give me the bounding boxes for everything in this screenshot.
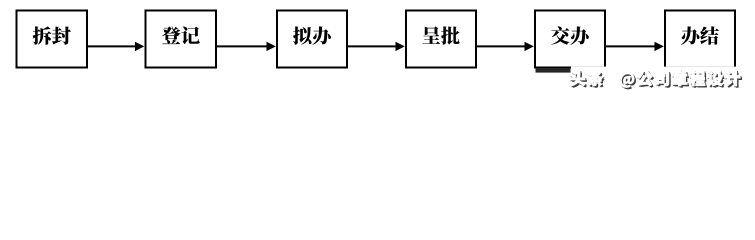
arrow 登记 to 拟办	[217, 42, 276, 51]
connector wire	[348, 45, 397, 47]
watermark text dark outline	[571, 71, 741, 88]
process box 拟办	[277, 11, 347, 68]
watermark leader line	[536, 68, 571, 73]
connector wire	[606, 45, 656, 47]
label text 交办	[551, 26, 589, 44]
label text 拟办	[293, 26, 331, 44]
arrowhead	[396, 42, 405, 51]
arrow 拆封 to 登记	[88, 42, 144, 51]
arrowhead	[655, 42, 664, 51]
arrow 呈批 to 交办	[477, 42, 534, 51]
arrow 交办 to 办结	[606, 42, 664, 51]
label text 办结	[681, 26, 719, 44]
process box 登记	[146, 11, 217, 68]
arrowhead	[525, 42, 534, 51]
connector wire	[477, 45, 526, 47]
label text 拆封	[33, 26, 71, 44]
arrowhead	[267, 42, 276, 51]
arrow 拟办 to 呈批	[348, 42, 405, 51]
watermark text white fill	[570, 71, 740, 88]
process box 交办	[535, 11, 605, 68]
label text 呈批	[422, 26, 459, 44]
arrowhead	[135, 42, 144, 51]
process box 办结	[665, 11, 735, 68]
process box 拆封	[17, 11, 88, 68]
watermark group: Toutiao logo line + 头条 @公司章程设计	[536, 67, 747, 90]
watermark text shadow	[572, 72, 742, 89]
watermark white band erasing borders behind text	[571, 67, 746, 71]
process box 呈批	[406, 11, 476, 68]
connector wire	[217, 45, 268, 47]
connector wire	[88, 45, 137, 47]
label text 登记	[162, 26, 200, 44]
